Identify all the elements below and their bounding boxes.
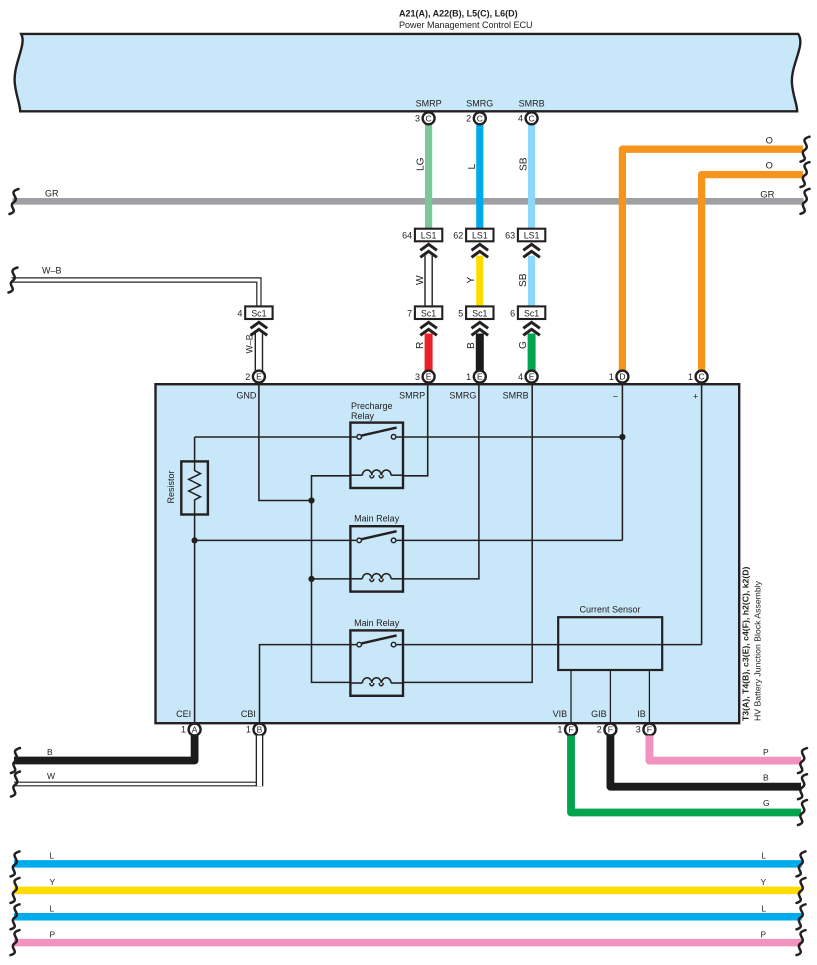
svg-text:C: C xyxy=(426,113,432,123)
svg-text:L: L xyxy=(50,851,55,861)
svg-text:1: 1 xyxy=(181,725,186,735)
svg-text:SMRG: SMRG xyxy=(466,99,493,109)
svg-text:3: 3 xyxy=(415,114,420,124)
svg-text:1: 1 xyxy=(557,725,562,735)
svg-text:−: − xyxy=(613,392,618,402)
svg-text:E: E xyxy=(529,372,535,382)
svg-text:O: O xyxy=(766,135,773,145)
svg-text:GR: GR xyxy=(760,189,774,200)
svg-text:SMRP: SMRP xyxy=(416,99,442,109)
svg-text:C: C xyxy=(699,372,705,382)
svg-text:Sc1: Sc1 xyxy=(251,308,266,318)
svg-text:E: E xyxy=(477,372,483,382)
svg-text:LS1: LS1 xyxy=(524,231,540,241)
svg-text:+: + xyxy=(693,392,698,402)
svg-text:LG: LG xyxy=(416,157,427,171)
svg-text:Precharge: Precharge xyxy=(351,401,393,411)
svg-text:B: B xyxy=(257,725,263,735)
svg-text:CEI: CEI xyxy=(176,709,191,719)
svg-text:LS1: LS1 xyxy=(472,231,488,241)
svg-text:L: L xyxy=(50,904,55,914)
svg-text:O: O xyxy=(766,161,773,171)
svg-text:B: B xyxy=(763,773,769,783)
svg-text:64: 64 xyxy=(402,231,412,241)
svg-text:L: L xyxy=(761,904,766,914)
svg-text:6: 6 xyxy=(510,308,515,318)
svg-text:Sc1: Sc1 xyxy=(421,308,436,318)
svg-text:Main Relay: Main Relay xyxy=(354,618,400,628)
svg-text:Resistor: Resistor xyxy=(166,470,176,503)
svg-text:E: E xyxy=(256,372,262,382)
svg-text:SB: SB xyxy=(518,273,529,287)
svg-text:W: W xyxy=(415,275,426,285)
svg-text:7: 7 xyxy=(407,308,412,318)
svg-text:LS1: LS1 xyxy=(421,231,437,241)
svg-text:HV Battery Junction Block Asse: HV Battery Junction Block Assembly xyxy=(753,580,763,721)
svg-text:4: 4 xyxy=(237,308,242,318)
svg-text:IB: IB xyxy=(637,709,646,719)
svg-text:F: F xyxy=(608,725,613,735)
svg-text:G: G xyxy=(763,798,770,808)
svg-text:D: D xyxy=(619,372,625,382)
svg-text:CBI: CBI xyxy=(241,709,256,719)
svg-text:SMRP: SMRP xyxy=(399,391,425,401)
svg-text:W–B: W–B xyxy=(42,266,62,276)
svg-text:F: F xyxy=(568,725,573,735)
svg-text:SMRG: SMRG xyxy=(449,391,476,401)
svg-text:4: 4 xyxy=(518,114,523,124)
svg-text:5: 5 xyxy=(458,308,463,318)
svg-text:SMRB: SMRB xyxy=(503,391,529,401)
svg-text:B: B xyxy=(466,342,477,349)
svg-text:Power Management Control ECU: Power Management Control ECU xyxy=(399,20,533,30)
svg-text:Current Sensor: Current Sensor xyxy=(579,604,640,614)
svg-text:W–B: W–B xyxy=(245,334,255,353)
svg-text:GR: GR xyxy=(45,189,59,199)
svg-text:SB: SB xyxy=(519,157,530,171)
svg-text:P: P xyxy=(50,929,56,939)
svg-text:L: L xyxy=(467,164,478,170)
svg-text:Y: Y xyxy=(466,277,477,284)
svg-text:A: A xyxy=(192,725,198,735)
svg-text:Y: Y xyxy=(760,877,766,887)
svg-text:SMRB: SMRB xyxy=(519,99,545,109)
svg-text:F: F xyxy=(647,725,652,735)
svg-text:4: 4 xyxy=(518,372,523,382)
svg-text:W: W xyxy=(47,771,55,781)
svg-text:Main Relay: Main Relay xyxy=(354,514,400,524)
svg-text:63: 63 xyxy=(505,231,515,241)
svg-text:1: 1 xyxy=(466,372,471,382)
svg-text:G: G xyxy=(518,341,529,349)
svg-text:A21(A), A22(B), L5(C), L6(D): A21(A), A22(B), L5(C), L6(D) xyxy=(399,9,518,19)
svg-text:1: 1 xyxy=(688,372,693,382)
svg-text:2: 2 xyxy=(245,372,250,382)
svg-text:Sc1: Sc1 xyxy=(472,308,487,318)
svg-text:E: E xyxy=(426,372,432,382)
svg-text:C: C xyxy=(477,113,483,123)
svg-text:3: 3 xyxy=(415,372,420,382)
svg-text:2: 2 xyxy=(597,725,602,735)
svg-text:C: C xyxy=(529,113,535,123)
svg-text:VIB: VIB xyxy=(553,709,568,719)
svg-text:GIB: GIB xyxy=(591,709,607,719)
svg-text:1: 1 xyxy=(246,725,251,735)
svg-text:2: 2 xyxy=(466,114,471,124)
svg-text:62: 62 xyxy=(453,231,463,241)
svg-text:P: P xyxy=(760,929,766,939)
svg-text:Y: Y xyxy=(50,877,56,887)
svg-text:B: B xyxy=(47,747,53,757)
svg-text:GND: GND xyxy=(236,391,257,401)
svg-text:3: 3 xyxy=(636,725,641,735)
svg-text:Relay: Relay xyxy=(351,411,375,421)
svg-text:P: P xyxy=(763,747,769,757)
svg-text:1: 1 xyxy=(609,372,614,382)
svg-text:R: R xyxy=(415,342,426,349)
svg-text:Sc1: Sc1 xyxy=(524,308,539,318)
svg-text:T3(A), T4(B), c3(E), c4(F), h2: T3(A), T4(B), c3(E), c4(F), h2(C), k2(D) xyxy=(741,566,751,721)
svg-text:L: L xyxy=(761,851,766,861)
